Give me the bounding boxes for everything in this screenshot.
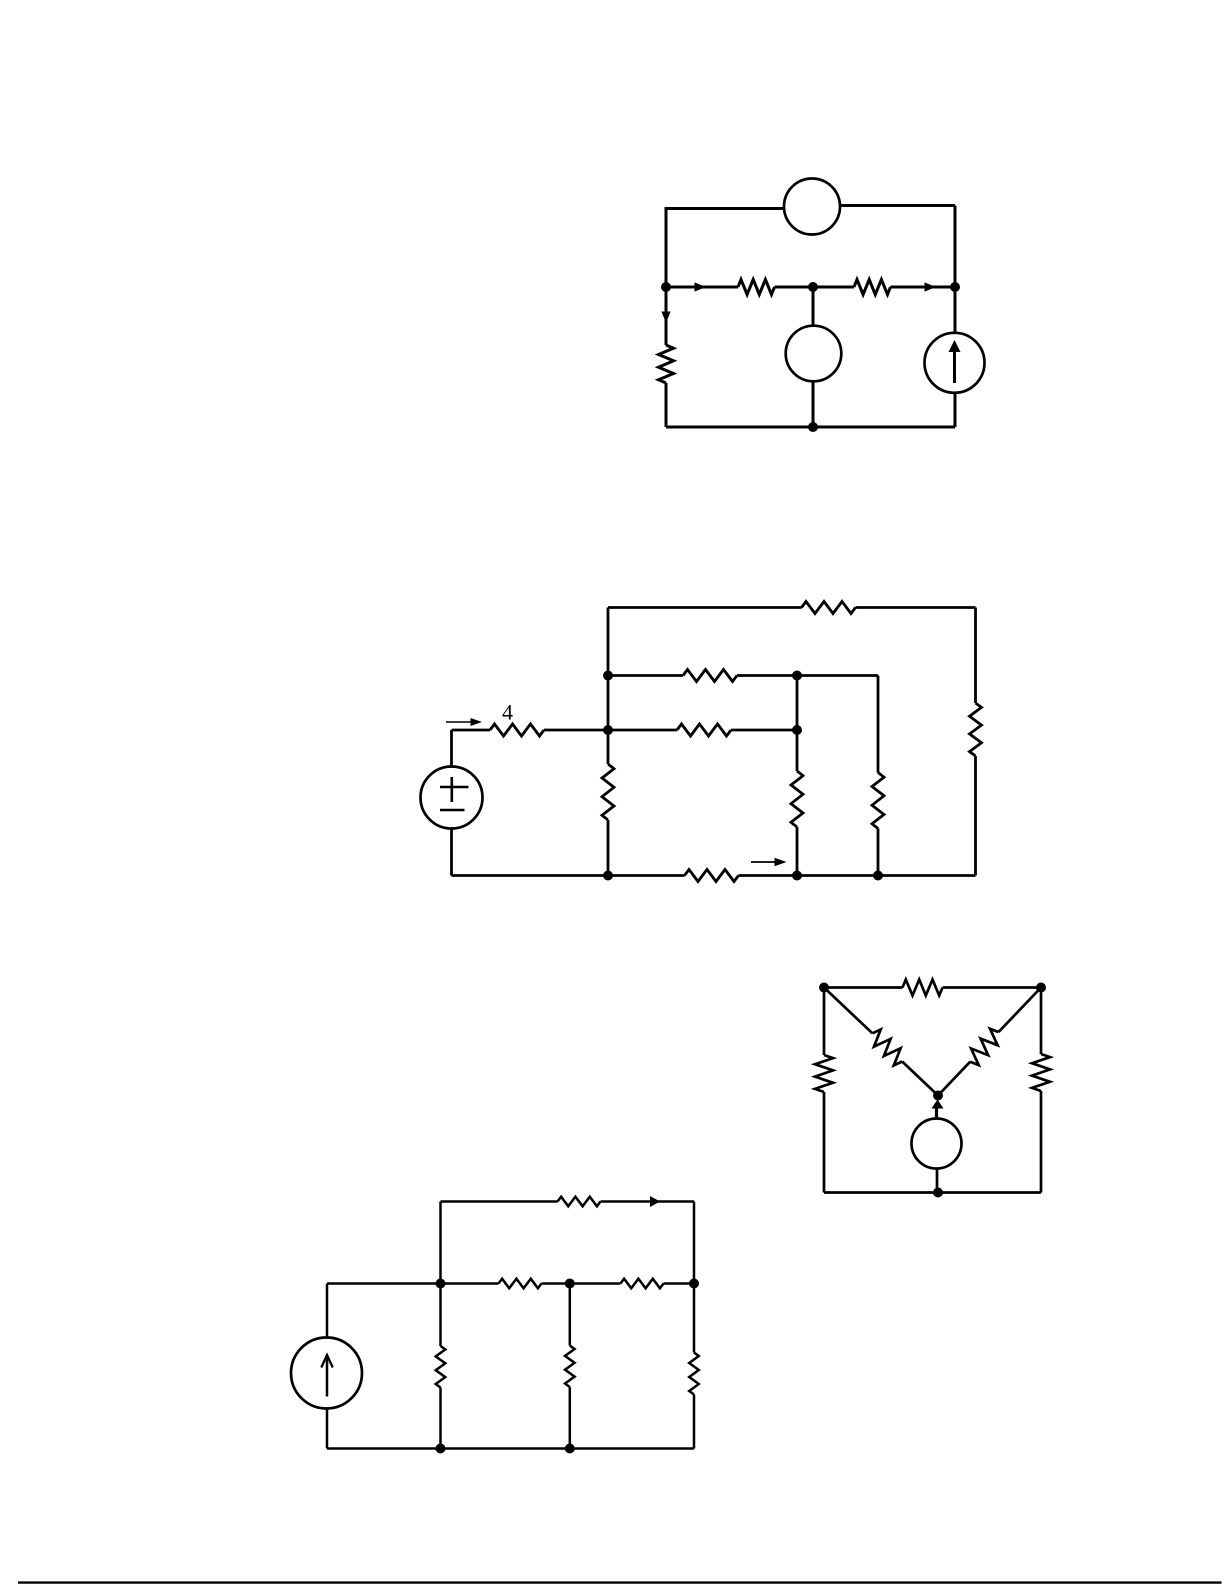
wire: C4 second wire R19-to-node [542,1282,621,1285]
resistor R1 (C1 middle-left) [738,280,775,295]
wire: I3 bottom to bottom wire [326,1409,329,1449]
resistor R4 (C2 top wire) [802,602,856,614]
node g (C2 third wire x=608 junction) [603,725,613,735]
resistor R20 (C4 second wire right) [621,1279,664,1289]
wire: C1 middle wire segment node-to-R1 [666,286,738,289]
wire: C4 right vertical lower [693,1395,696,1449]
minus sign of V2 [440,809,465,812]
wire: C2 third wire R9-to-node [731,729,797,732]
wire: C1 middle wire segment R1-to-R2 [775,286,855,289]
current source I3 (C4 left, arrow up) [326,1284,329,1338]
wire: C2 vertical x=878 (second wire to bottom) [877,676,880,773]
wire: C2 bottom wire left segment [452,874,685,877]
resistor R14 (C3 left vertical) [815,1055,833,1092]
node n (C3 center tie point) [933,1091,943,1101]
voltage source V2 (C2 left, plus-minus) [450,730,453,767]
resistor R13 (C3 top) [903,980,943,996]
wire: C2 bottom wire right segment [739,874,976,877]
node q (C4 second wire x=569.8) [565,1279,575,1289]
wire: C2 right vertical lower segment [974,756,977,876]
svg-text:4: 4 [502,700,513,725]
node s (C4 bottom x=440.5) [436,1444,446,1454]
resistor R6 (C2 second wire) [683,670,737,682]
node t (C4 bottom x=569.8) [565,1444,575,1454]
resistor R18 (C4 top) [558,1197,601,1207]
wire: C1 top-left vertical (top wire to middle node) [665,207,668,287]
current arrow on C4 top wire [650,1196,660,1207]
resistor R16 (C3 left diagonal) with wires [824,988,872,1034]
node i (C2 bottom x=608) [603,871,613,881]
node c (C1 middle-left junction) [661,282,671,292]
meter/source U1 (unlabeled circle in top branch) [784,179,840,235]
wire: C4 bottom wire [327,1447,694,1450]
wire: C3 left vertical lower [823,1092,826,1193]
resistor R23 (C4 right vertical) [689,1353,699,1395]
wire: C1 left vertical upper segment with current arrow [665,287,668,345]
resistor R12 (C2 bottom wire) [685,870,739,882]
wire: C4 vertical x=440.5 lower [439,1388,442,1449]
wire: C2 third wire corner-to-R8 [452,729,491,732]
wire: C2 second wire node-to-R6 [608,674,683,677]
wire: C2 right vertical upper segment [974,608,977,704]
current source I2 (C3 bottom circle) [912,1119,962,1169]
resistor R22 (C4 vertical x=569.8) [565,1346,575,1388]
wire: C2 vertical x=797 lower segment [796,827,799,876]
current arrow on C2 bottom wire [751,861,781,863]
wire: C4 vertical x=440.5 upper [439,1202,442,1347]
node e (C2 second wire left junction) [603,671,613,681]
resistor R17 (C3 right diagonal) with wires [999,988,1042,1033]
wire: C1 bottom wire [666,426,955,429]
resistor R10 (C2 vertical x=797) [791,771,803,827]
wire: C4 vertical x=569.8 lower [569,1387,572,1449]
node p (C4 second wire x=440.5) [436,1279,446,1289]
wire: V2 bottom to bottom wire [450,829,453,876]
wire: C1 center vertical (middle wire to bottom) [812,287,815,427]
wire: C4 left loop top (source to ladder) [327,1282,441,1285]
wire: C2 left vertical lower segment [607,820,610,876]
wire: C3 right vertical lower [1040,1091,1043,1193]
node h (C2 third wire x=797 junction) [792,725,802,735]
current arrow on C1 left branch (down) [661,312,670,324]
plus sign of V2 [440,786,469,789]
wire: C1 right vertical upper (top wire to middle wire) [954,206,957,288]
node l (C3 top-left) [819,983,829,993]
wire: C2 left vertical x=608 (top to bottom) [607,608,610,765]
resistor R5 (C2 left vertical) [602,764,614,820]
arrow from I2 into node n [935,1103,938,1119]
wire: C4 second wire R20-to-right [664,1282,695,1285]
resistor R3 (C1 left vertical) [659,345,674,383]
wire: C4 second wire node-to-R19 [441,1282,499,1285]
wire: C4 vertical x=569.8 upper [569,1284,572,1346]
wire: C2 top wire right segment [856,606,976,609]
wire: C2 third wire R8-to-node [544,729,608,732]
wire: C4 top wire left segment [441,1200,558,1203]
wire: C1 right vertical lower (middle wire to bottom) [954,287,957,427]
node a (C1 middle-center junction) [808,282,818,292]
wire: C1 middle wire segment R2-to-right-node [891,286,956,289]
resistor R21 (C4 vertical x=440.5) [436,1346,446,1388]
resistor R2 (C1 middle-right) [854,280,891,295]
node k (C2 bottom x=878) [873,871,883,881]
wire: C3 right vertical upper [1040,988,1043,1055]
wire: C2 third wire node-to-R9 [608,729,677,732]
node f (C2 second wire right junction) [792,671,802,681]
node r (C4 second wire x=694) [689,1279,699,1289]
wire: C1 left vertical lower segment [665,383,668,427]
node o (C3 bottom junction) [933,1188,943,1198]
wire: C3 top wire left segment [824,986,903,989]
wire: C2 vertical x=797 (second wire to bottom) [796,676,799,772]
arrow inside I3 [326,1355,329,1397]
wire: C4 right vertical upper [693,1202,696,1353]
wire: C1 top wire right segment [840,204,956,207]
resistor R11 (C2 right vertical) [970,703,982,756]
resistor R8 value 4 (C2 third wire left) [490,724,544,736]
current arrow into C2 third wire (left, labeled 4) [446,721,476,723]
wire: C4 top wire right segment [601,1200,695,1203]
wire: C3 top wire right segment [943,986,1042,989]
current arrow on C1 middle wire (left) [695,282,707,291]
resistor R9 (C2 third wire right) [677,724,731,736]
footer rule line [18,1581,1222,1583]
wire: C3 left vertical upper [823,988,826,1056]
wire: C3 bottom wire [824,1191,1041,1194]
current arrow on C1 middle wire (right) [925,282,937,291]
resistor R15 (C3 right vertical) [1032,1054,1050,1091]
wire: C2 second wire R6-to-corner [737,674,878,677]
wire: C1 top wire left segment [666,207,785,210]
source V1 (C1 center circle) [786,326,842,382]
current source I1 (C1 right, arrow up) [925,333,985,393]
node j (C2 bottom x=797) [792,871,802,881]
arrow inside I1 [953,350,956,383]
wire: C2 vertical x=878 lower segment [877,829,880,876]
resistor R19 (C4 second wire left) [499,1279,542,1289]
wire: I2 bottom to bottom wire [936,1169,939,1193]
wire: C2 top wire left segment [608,606,802,609]
node m (C3 top-right) [1036,983,1046,993]
resistor R7 (C2 vertical x=878) [872,773,884,829]
node d (C1 bottom junction) [808,422,818,432]
node b (C1 middle-right junction) [950,282,960,292]
